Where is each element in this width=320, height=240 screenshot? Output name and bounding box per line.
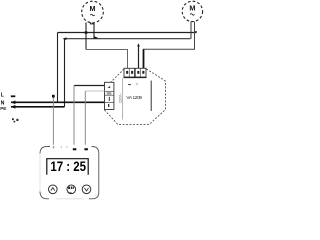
junction on bus A	[85, 31, 88, 34]
svg-text:230V~: 230V~	[119, 93, 123, 103]
svg-text:M: M	[189, 4, 195, 13]
wire bus A (upper horizontal)	[58, 32, 197, 34]
small marks 230V note	[12, 118, 18, 122]
terminal block left side of device	[105, 82, 114, 109]
L arrow stub	[11, 95, 16, 97]
terminal block top-left of device	[124, 68, 135, 77]
wire: timer lead 1	[52, 98, 54, 145]
terminal strip bottom bar	[124, 77, 147, 79]
motor M2 (right, dashed circle with M~)	[182, 1, 202, 21]
wire N feed	[11, 101, 105, 103]
svg-text:L: L	[1, 93, 4, 99]
svg-text:M: M	[90, 4, 96, 13]
arrow on PE wire	[11, 105, 16, 109]
motor M1 (left, dashed circle with M~)	[82, 1, 104, 23]
button down	[82, 185, 91, 194]
svg-text:PE: PE	[0, 106, 6, 111]
wire: left feed to timer (upper)	[74, 85, 105, 87]
timer terminal marks	[53, 146, 54, 148]
inner device line right	[150, 81, 152, 111]
wire: vertical from bus B down to PE feed	[64, 39, 66, 107]
wire: vertical from bus A down to N feed	[57, 33, 59, 103]
device outline (flush-mount box, dashed octagon)	[105, 69, 166, 125]
wire: right jog line to device terminal 4	[144, 22, 195, 69]
wire: timer lead 3	[84, 91, 86, 145]
wire: arrow lead into device terminal 3	[138, 45, 140, 69]
display time text	[50, 158, 86, 174]
arrow at M1 right lead junction	[95, 36, 99, 38]
arrow at left end of bus B	[63, 37, 67, 40]
arrow tick at right end of bus A	[195, 31, 197, 32]
inner device line left	[122, 78, 124, 119]
arrow on N wire	[11, 101, 16, 105]
wire: motor M2 left lead down to bus B	[190, 22, 192, 39]
junction dot	[84, 101, 86, 103]
wire: timer lead 2	[73, 86, 75, 145]
svg-text:VA 1208: VA 1208	[126, 95, 142, 100]
label arrow-up under terminals	[128, 83, 130, 86]
button middle	[67, 185, 76, 194]
button up	[49, 185, 58, 194]
wire: left feed to timer (lower)	[85, 90, 104, 92]
timer display	[47, 159, 88, 175]
timer unit (rounded box)	[40, 147, 99, 199]
terminal block top-right of device	[135, 68, 146, 77]
wire bus B (lower horizontal)	[64, 38, 191, 40]
svg-text:~: ~	[136, 82, 139, 87]
wire: jog to device terminal 1	[86, 50, 128, 69]
wire: motor M1 right lead jog	[91, 23, 95, 39]
wire PE feed	[11, 106, 65, 108]
node square on timer L wire	[52, 95, 55, 98]
wire: motor M1 left lead down	[85, 23, 87, 50]
svg-text:17 : 25: 17 : 25	[50, 158, 86, 174]
